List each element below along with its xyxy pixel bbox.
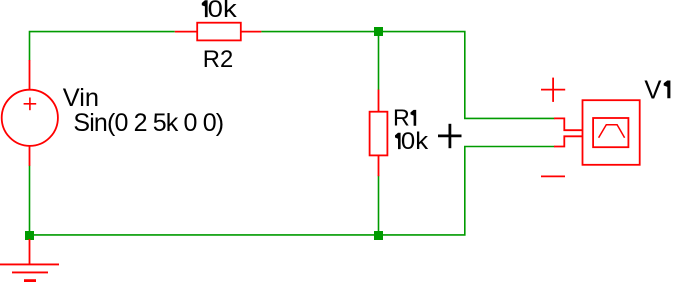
voltmeter V1 + terminal marker (black plus) [438,124,462,148]
voltage source polarity + [24,98,37,111]
ground [0,239,59,281]
resistor R1 body [370,112,388,156]
resistor R2 label [203,46,233,73]
resistor R1 value 10k [395,128,429,155]
resistor R2 leads [175,31,261,33]
voltage source Vin leads [29,60,31,166]
voltage source Vin label [63,84,99,112]
wire: voltmeter - stub, down, bottom rail to ground node [30,147,555,235]
svg-text:R2: R2 [203,46,233,73]
voltmeter V1 trapezoid waveform icon [599,125,625,138]
voltmeter V1 red - polarity mark [541,175,565,177]
svg-text:0k: 0k [401,128,429,155]
wire: node A down to R1 top lead [378,34,380,90]
svg-text:Sin(0 2 5k 0 0): Sin(0 2 5k 0 0) [73,109,223,137]
svg-text:V: V [644,76,661,104]
voltmeter V1 label [644,76,670,104]
voltage source Vin value Sin(0 2 5k 0 0) [73,109,223,137]
svg-text:Vin: Vin [63,84,99,112]
resistor R1 label [393,105,416,131]
voltmeter V1 inner box [593,118,628,147]
wire: R2 right pin to node A, corner, to voltmeter + stub [261,32,554,119]
wire: source bottom lead to ground node [29,165,31,233]
voltmeter V1 outer box [583,100,640,165]
voltmeter V1 pin stub bottom [554,136,583,146]
node C (junction bottom left at ground) [25,231,34,240]
resistor R1 leads [378,90,380,177]
voltmeter V1 red + polarity mark [541,78,565,102]
node B (junction bottom middle) [374,231,383,240]
svg-text:R: R [393,105,410,131]
wire: R1 bottom lead to bottom rail node [378,176,380,235]
resistor R2 value 10k [202,0,238,23]
wire: source top to R2 left pin [30,32,175,61]
resistor R2 body [197,23,241,41]
node A (junction top, R2/R1/meter) [374,27,383,36]
voltmeter V1 pin stub top [554,118,583,130]
voltage source Vin circle [2,90,58,146]
svg-text:0k: 0k [208,0,238,23]
